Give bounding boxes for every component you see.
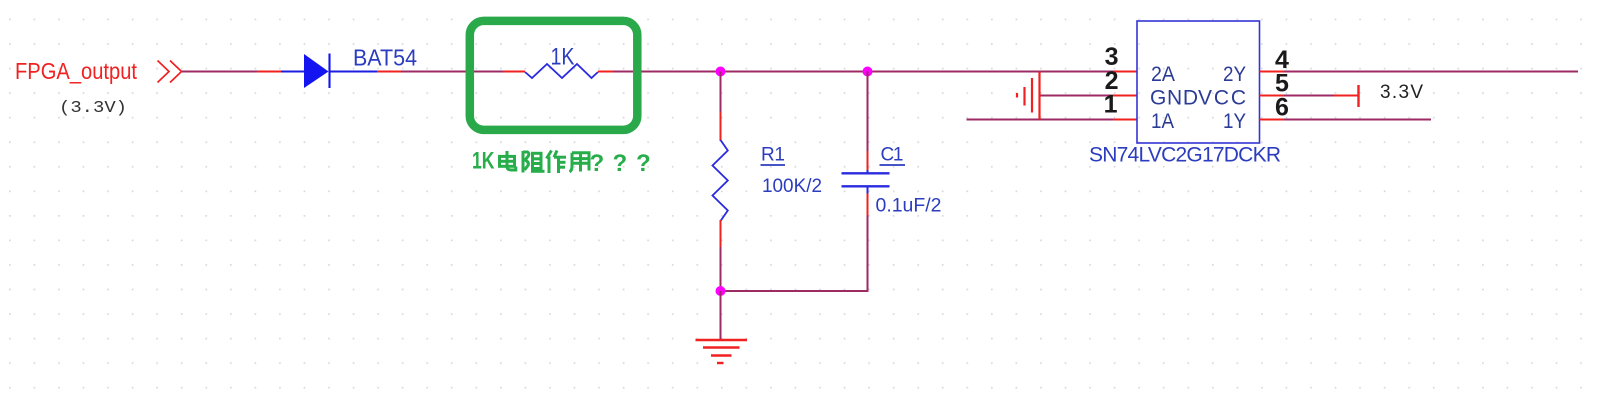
svg-text:GND: GND (1150, 87, 1198, 110)
resistor R1 bottom lead (red) (720, 220, 722, 247)
port symbol >> (158, 61, 182, 83)
annotation glyph 用 (570, 153, 590, 172)
green annotation box around 1K (470, 21, 638, 130)
IC pin 2 stub (red) (1113, 95, 1137, 97)
diode cathode lead (blue) (330, 71, 377, 73)
capacitor C1 top stub (blue) (867, 170, 869, 173)
diode D? anode lead (blue) (281, 71, 305, 73)
svg-text:(3.3V): (3.3V) (59, 99, 127, 118)
wire: port to diode (maroon) (182, 71, 257, 73)
wire: bottom horizontal R1-C1 (maroon) (721, 290, 868, 292)
wire: pin 5 to 3.3V (maroon) (1284, 95, 1334, 97)
wire: IC pin 2 wire (maroon) (1040, 95, 1113, 97)
svg-text:1: 1 (1104, 91, 1118, 119)
junction node A (top of R1) (716, 67, 726, 77)
svg-text:1K: 1K (472, 148, 495, 175)
IC U1 body SN74LVC2G17 (1137, 21, 1260, 143)
diode BAT54 triangle (304, 54, 329, 88)
svg-text:SN74LVC2G17DCKR: SN74LVC2G17DCKR (1089, 144, 1281, 167)
svg-text:0.1uF/2: 0.1uF/2 (876, 196, 942, 217)
capacitor C1 top lead (red) (867, 151, 869, 170)
svg-text:2Y: 2Y (1223, 63, 1246, 86)
svg-text:1A: 1A (1151, 110, 1174, 133)
annotation glyph 作 (547, 151, 567, 174)
IC pin 3 stub (red) (1113, 71, 1137, 73)
resistor R1 zigzag (713, 140, 728, 221)
svg-text:VCC: VCC (1198, 87, 1246, 110)
svg-text:FPGA_output: FPGA_output (15, 58, 138, 84)
IC pin 6 stub (red) (1260, 119, 1285, 121)
wire: diode to resistor (maroon) (401, 71, 503, 73)
svg-text:C1: C1 (881, 145, 904, 166)
IC pin 1 stub (red) (1113, 119, 1137, 121)
IC pin 5 stub (red) (1260, 95, 1285, 97)
junction node C (bottom) (716, 286, 726, 296)
svg-text:R1: R1 (761, 145, 785, 166)
capacitor C1 top plate (842, 172, 890, 174)
label C1 underline (880, 164, 906, 166)
svg-text:?: ? (636, 150, 651, 177)
capacitor C1 bottom lead (red) (867, 194, 869, 216)
resistor R1 top lead (red) (720, 112, 722, 141)
svg-text:6: 6 (1275, 94, 1289, 122)
wire: junction A down to R1 (maroon) (720, 72, 722, 113)
wire: node C down to ground (maroon) (720, 291, 722, 340)
annotation glyph 阻 (523, 151, 545, 173)
wire: pin 6 (maroon) (1284, 119, 1431, 121)
capacitor C1 bottom plate (842, 185, 890, 187)
wire: resistor to IC (maroon) (613, 71, 1113, 73)
diode BAT54 cathode bar (328, 54, 330, 89)
svg-text:BAT54: BAT54 (353, 45, 417, 71)
svg-text:100K/2: 100K/2 (762, 176, 822, 197)
wire: red segment after diode (377, 71, 401, 73)
annotation glyph 电 (500, 151, 516, 170)
resistor 1K right lead (red) (598, 71, 613, 73)
svg-text:?: ? (590, 150, 605, 177)
capacitor C1 bottom stub (blue) (867, 187, 869, 194)
3.3V power symbol bar (1357, 85, 1359, 107)
wire: R1 to bottom node (maroon) (720, 247, 722, 291)
svg-text:?: ? (613, 150, 628, 177)
resistor 1K zigzag (525, 64, 598, 78)
wire: C1 to bottom wire (maroon) (867, 216, 869, 293)
svg-text:3.3V: 3.3V (1380, 82, 1423, 103)
wire: red segment before diode (257, 71, 281, 73)
3.3V power symbol lead (red) (1334, 95, 1358, 97)
resistor 1K left lead (red) (503, 71, 525, 73)
wire: IC pin 1 long wire (maroon) (967, 119, 1114, 121)
IC pin 4 stub (red) (1260, 71, 1285, 73)
ground power symbol (rotated, at pin 2) (1017, 72, 1040, 120)
svg-text:1K: 1K (551, 44, 575, 71)
svg-text:1Y: 1Y (1223, 110, 1246, 133)
wire: junction B down to C1 (maroon) (867, 72, 869, 152)
wire: pin 4 output (maroon) (1284, 71, 1578, 73)
ground symbol (696, 340, 748, 363)
label R1 underline (761, 164, 786, 166)
svg-text:2A: 2A (1151, 63, 1175, 86)
junction node B (top of C1) (863, 67, 873, 77)
